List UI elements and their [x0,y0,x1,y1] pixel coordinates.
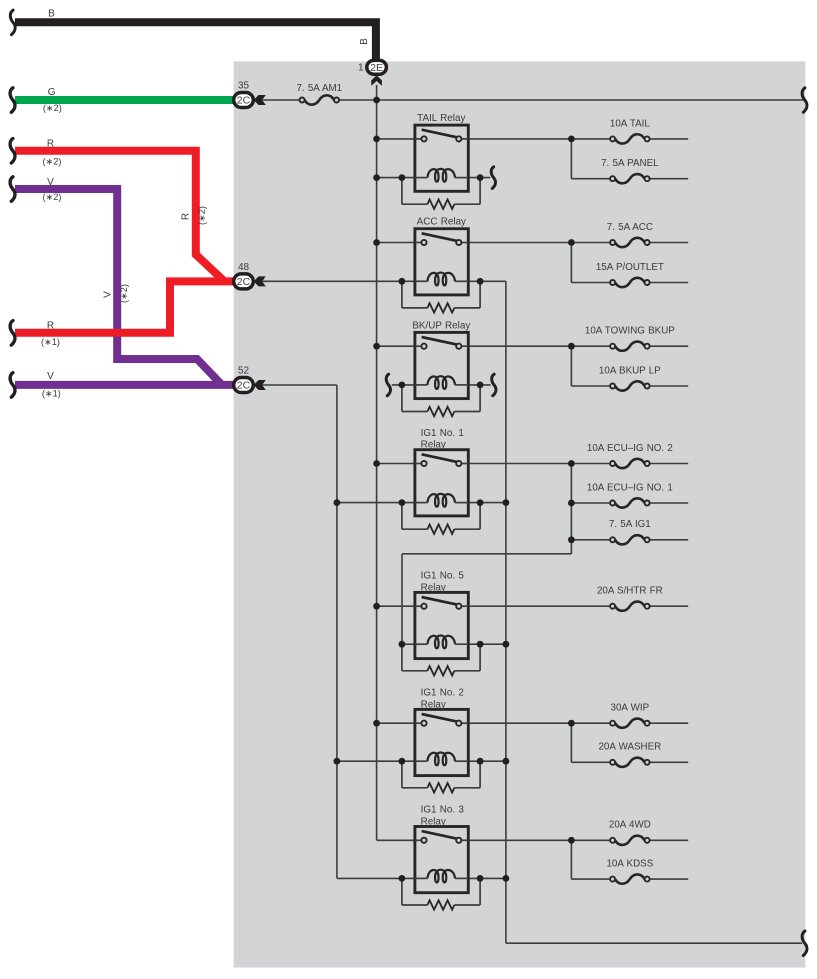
svg-text:48: 48 [238,262,250,273]
svg-text:(∗1): (∗1) [42,389,61,399]
svg-text:(∗2): (∗2) [43,103,62,113]
svg-text:IG1 No. 1: IG1 No. 1 [421,428,465,439]
svg-text:Relay: Relay [421,440,446,451]
svg-text:B: B [359,38,370,45]
svg-text:BK/UP Relay: BK/UP Relay [412,320,470,331]
svg-text:15A P/OUTLET: 15A P/OUTLET [596,262,664,273]
svg-text:10A TAIL: 10A TAIL [610,118,650,129]
svg-text:20A WASHER: 20A WASHER [598,742,661,753]
svg-text:7. 5A IG1: 7. 5A IG1 [609,519,651,530]
svg-text:2C: 2C [237,95,251,107]
svg-text:7. 5A PANEL: 7. 5A PANEL [601,158,659,169]
svg-text:2C: 2C [237,276,251,288]
svg-text:2C: 2C [237,380,251,392]
svg-text:B: B [48,8,55,19]
svg-text:7. 5A AM1: 7. 5A AM1 [296,83,342,94]
svg-text:10A KDSS: 10A KDSS [606,859,653,870]
svg-text:R: R [181,213,192,220]
svg-text:Relay: Relay [421,817,446,828]
svg-text:Relay: Relay [421,699,446,710]
svg-text:IG1 No. 5: IG1 No. 5 [421,571,465,582]
svg-text:2E: 2E [370,62,383,74]
svg-text:(∗2): (∗2) [119,284,129,303]
svg-text:10A TOWING BKUP: 10A TOWING BKUP [585,326,675,337]
svg-text:Relay: Relay [421,582,446,593]
svg-text:V: V [47,177,54,188]
svg-text:G: G [48,87,56,98]
svg-text:35: 35 [238,81,250,92]
svg-text:IG1 No. 2: IG1 No. 2 [421,688,464,699]
svg-text:V: V [103,291,114,298]
svg-text:52: 52 [238,366,250,377]
svg-text:1: 1 [358,63,364,74]
svg-text:30A WIP: 30A WIP [611,703,650,714]
svg-text:(∗2): (∗2) [43,192,62,202]
svg-text:R: R [47,321,54,332]
svg-text:20A 4WD: 20A 4WD [609,820,651,831]
svg-text:V: V [47,371,54,382]
svg-text:7. 5A ACC: 7. 5A ACC [607,222,653,233]
svg-text:IG1 No. 3: IG1 No. 3 [421,805,465,816]
svg-text:(∗2): (∗2) [43,157,62,167]
svg-text:ACC Relay: ACC Relay [417,217,466,228]
svg-text:20A S/HTR FR: 20A S/HTR FR [597,586,663,597]
svg-text:(∗2): (∗2) [197,206,207,225]
svg-text:(∗1): (∗1) [41,337,60,347]
svg-text:10A BKUP LP: 10A BKUP LP [599,365,661,376]
svg-text:10A ECU–IG NO. 1: 10A ECU–IG NO. 1 [587,482,673,493]
svg-text:10A ECU–IG NO. 2: 10A ECU–IG NO. 2 [587,443,673,454]
svg-text:R: R [47,139,54,150]
svg-text:TAIL Relay: TAIL Relay [417,113,465,124]
